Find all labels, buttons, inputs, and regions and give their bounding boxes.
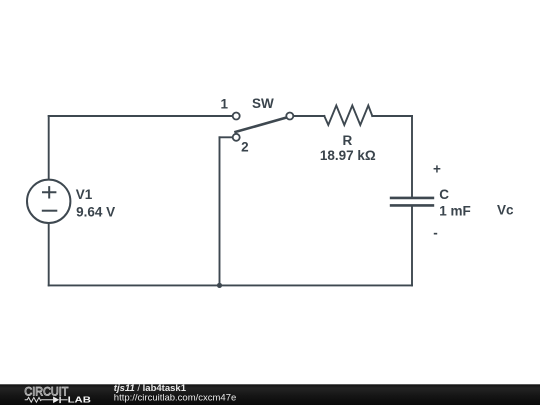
switch SW blade	[234, 117, 287, 132]
svg-text:9.64 V: 9.64 V	[76, 205, 115, 220]
svg-text:R: R	[343, 133, 353, 148]
wire capacitor bottom plate down to bottom rail	[411, 206, 413, 286]
wire bottom rail	[49, 284, 412, 286]
svg-text:SW: SW	[252, 96, 274, 111]
V1 plus symbol	[42, 186, 56, 198]
wire resistor to right corner	[372, 115, 412, 117]
svg-text:+: +	[433, 162, 441, 177]
capacitor C top plate	[390, 197, 434, 200]
svg-text:http://circuitlab.com/cxcm47e: http://circuitlab.com/cxcm47e	[114, 392, 237, 403]
V1 minus symbol	[42, 210, 58, 212]
svg-text:2: 2	[241, 140, 249, 155]
logo diode triangle	[53, 397, 59, 404]
resistor R zigzag	[324, 106, 372, 126]
footer bar	[0, 384, 540, 405]
svg-text:LAB: LAB	[68, 395, 92, 404]
switch common terminal circle	[286, 113, 293, 120]
svg-text:18.97 kΩ: 18.97 kΩ	[320, 148, 376, 163]
svg-text:C: C	[439, 187, 449, 202]
wire top rail to switch terminal 1	[49, 115, 233, 117]
switch terminal 2 circle	[233, 134, 240, 141]
wire left vertical below V1	[48, 223, 50, 285]
wire switch common to resistor	[293, 115, 324, 117]
svg-text:-: -	[433, 226, 438, 241]
svg-text:CIRCUIT: CIRCUIT	[24, 385, 68, 399]
junction node dot	[217, 283, 222, 288]
logo wire to LAB	[61, 399, 68, 401]
svg-text:V1: V1	[76, 187, 93, 202]
wire left-top vertical (V1 top to top rail)	[48, 116, 50, 179]
wire switch terminal 2 stub	[220, 136, 233, 138]
svg-text:Vc: Vc	[497, 202, 514, 217]
svg-text:1: 1	[220, 96, 228, 111]
voltage source V1 circle	[27, 180, 70, 223]
wire right rail down to capacitor top plate	[411, 116, 413, 198]
wire terminal 2 down to bottom rail	[219, 137, 221, 285]
logo resistor zigzag symbol	[25, 397, 53, 402]
svg-text:1 mF: 1 mF	[439, 204, 471, 219]
logo diode bar	[59, 397, 61, 404]
switch terminal 1 circle	[233, 113, 240, 120]
capacitor C bottom plate	[390, 204, 434, 207]
